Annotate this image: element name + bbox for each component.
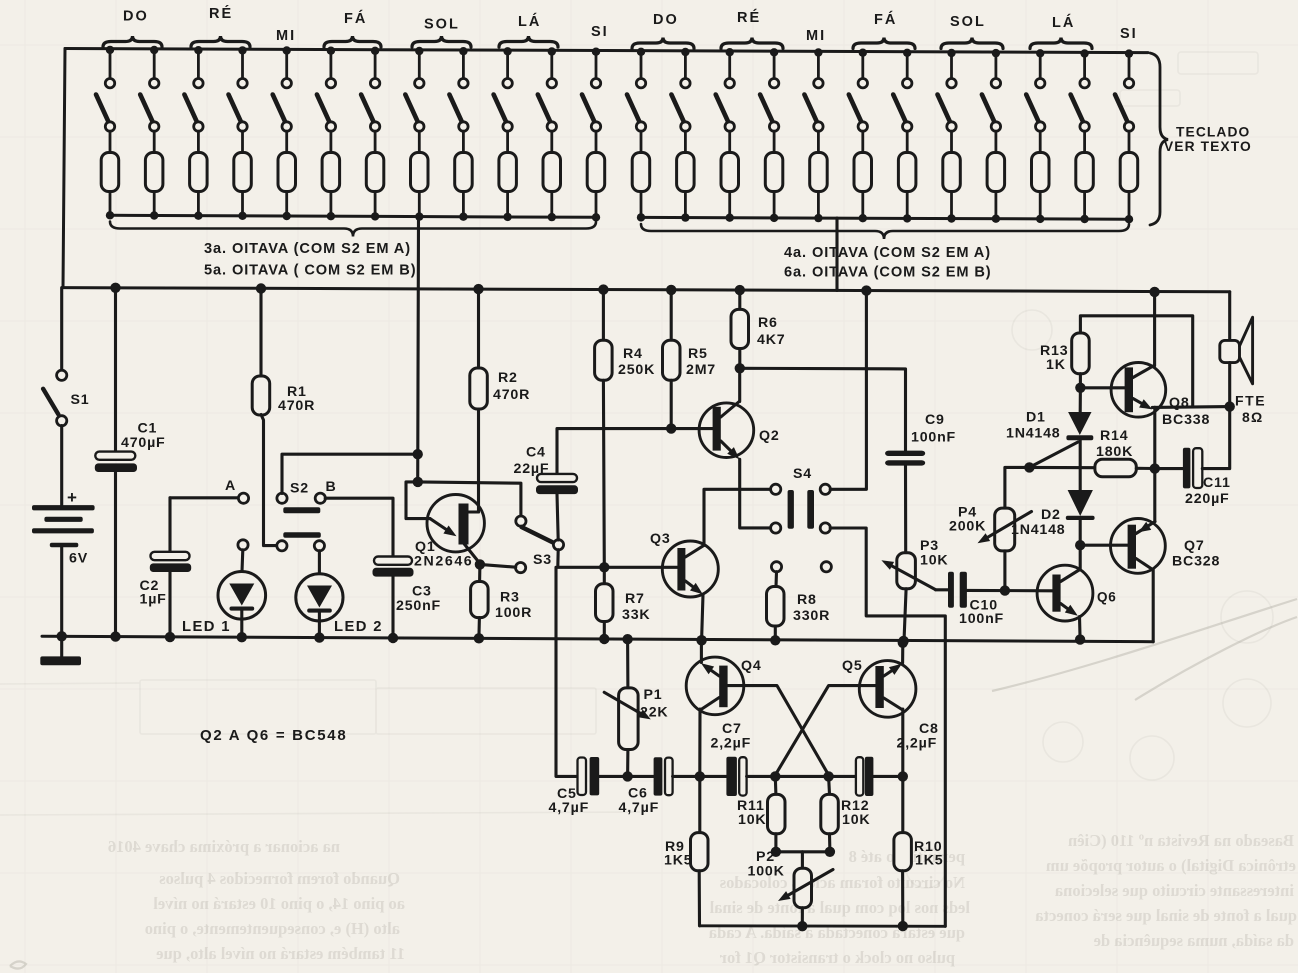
resistor R7 33K bbox=[596, 567, 651, 644]
svg-text:da saída, numa sequência de: da saída, numa sequência de bbox=[1094, 931, 1294, 950]
svg-text:2,2µF: 2,2µF bbox=[711, 736, 752, 752]
label note SOL (octave 2) bbox=[941, 14, 1003, 49]
resistor R6 4K7 bbox=[731, 285, 785, 374]
svg-text:alto (H) e, consequentemente,: alto (H) e, consequentemente, o pino bbox=[145, 919, 400, 938]
LED 2 bbox=[296, 551, 383, 643]
switch S2 bbox=[225, 478, 337, 551]
svg-text:S3: S3 bbox=[533, 552, 552, 568]
svg-text:R14: R14 bbox=[1100, 428, 1128, 444]
label note RÉ (octave 2) bbox=[721, 9, 783, 49]
capacitor C8 2,2uF bbox=[856, 721, 939, 796]
switch S4 bbox=[771, 466, 832, 572]
wire R6 to C9 bbox=[740, 368, 906, 451]
wire Q2 emitter to S4 bbox=[740, 459, 771, 528]
label note FÁ (octave 1) bbox=[324, 10, 381, 47]
wire keyboard bus octave group 1 bbox=[110, 215, 596, 217]
svg-text:B: B bbox=[326, 479, 337, 495]
svg-text:4K7: 4K7 bbox=[757, 332, 785, 348]
potentiometer P2 100K bbox=[748, 849, 834, 931]
svg-text:1K5: 1K5 bbox=[664, 853, 692, 869]
capacitor C11 220uF bbox=[1155, 407, 1231, 507]
svg-text:10K: 10K bbox=[920, 553, 948, 569]
svg-text:1N4148: 1N4148 bbox=[1011, 522, 1066, 538]
svg-text:P1: P1 bbox=[644, 687, 663, 703]
svg-text:D1: D1 bbox=[1026, 410, 1046, 426]
keyboard resistor 14 bbox=[677, 153, 695, 222]
resistor R3 100R bbox=[471, 564, 533, 643]
svg-text:470µF: 470µF bbox=[121, 435, 166, 451]
transistor Q4 bbox=[686, 635, 761, 776]
keyboard resistor 17 bbox=[810, 153, 828, 223]
svg-text:220µF: 220µF bbox=[1185, 491, 1230, 507]
transistor Q8 BC338 bbox=[1080, 287, 1210, 428]
keyboard resistor 8 bbox=[411, 153, 429, 221]
capacitor C10 100nF bbox=[936, 572, 1053, 627]
svg-text:leds nos loq com qual a fonte: leds nos loq com qual a fonte de sinal bbox=[709, 898, 970, 917]
svg-text:Q7: Q7 bbox=[1184, 538, 1205, 554]
svg-text:4,7µF: 4,7µF bbox=[619, 800, 660, 816]
speaker FTE 8R bbox=[1220, 292, 1266, 425]
svg-text:FTE: FTE bbox=[1235, 393, 1266, 409]
diode D2 1N4148 bbox=[1011, 490, 1095, 550]
svg-text:DO: DO bbox=[123, 9, 149, 25]
wire C8 to R10 bbox=[873, 771, 908, 781]
resistor R1 470R bbox=[252, 283, 315, 545]
svg-text:330R: 330R bbox=[793, 608, 830, 624]
svg-text:Quando forem fornecidos 4 puls: Quando forem fornecidos 4 pulsos bbox=[159, 869, 400, 888]
transistor Q3 bbox=[604, 531, 718, 597]
svg-text:180K: 180K bbox=[1096, 444, 1133, 460]
svg-text:TECLADO: TECLADO bbox=[1176, 125, 1250, 140]
wire Q4 base cross-couple bbox=[728, 686, 829, 775]
svg-text:S4: S4 bbox=[793, 466, 812, 482]
potentiometer P3 10K bbox=[881, 538, 948, 646]
wire S2 common to keyboard node bbox=[282, 454, 418, 493]
battery B1 6V bbox=[32, 426, 95, 642]
svg-text:1K5: 1K5 bbox=[915, 853, 943, 869]
svg-text:10K: 10K bbox=[842, 812, 870, 828]
keyboard resistor 2 bbox=[145, 153, 163, 220]
wire Q8 emitter down to Q7 bbox=[1153, 407, 1156, 521]
svg-text:Q4: Q4 bbox=[741, 658, 762, 674]
resistor R9 1K5 bbox=[664, 776, 708, 925]
wire Q5 base cross-couple bbox=[775, 686, 875, 775]
svg-text:LED 1: LED 1 bbox=[182, 619, 231, 635]
svg-text:R6: R6 bbox=[758, 315, 778, 331]
svg-text:6V: 6V bbox=[69, 551, 88, 567]
svg-text:250K: 250K bbox=[618, 362, 655, 378]
key switch 16 (RÉ) bbox=[760, 48, 779, 152]
svg-text:Q2 A Q6 = BC548: Q2 A Q6 = BC548 bbox=[200, 727, 347, 744]
keyboard resistor 22 bbox=[1032, 153, 1050, 224]
label note LÁ (octave 1) bbox=[499, 13, 558, 47]
resistor R10 1K5 bbox=[894, 776, 944, 931]
key switch 13 (DO) bbox=[627, 48, 646, 153]
svg-text:LED 2: LED 2 bbox=[334, 619, 383, 635]
svg-text:Baseado na Revista nº 110 (Ciê: Baseado na Revista nº 110 (Ciên bbox=[1068, 831, 1294, 850]
svg-text:C9: C9 bbox=[925, 412, 945, 428]
key switch 18 (FÁ) bbox=[849, 49, 868, 153]
svg-text:6a. OITAVA (COM S2 EM B): 6a. OITAVA (COM S2 EM B) bbox=[784, 265, 992, 281]
svg-text:250nF: 250nF bbox=[396, 598, 441, 614]
key switch 20 (SOL) bbox=[938, 49, 957, 153]
capacitor C2 1uF bbox=[140, 498, 239, 643]
key switch 6 (FÁ) bbox=[317, 47, 336, 153]
svg-text:pulso no clock o transistor Q1: pulso no clock o transistor Q1 for bbox=[720, 948, 955, 967]
keyboard resistor 3 bbox=[190, 153, 208, 220]
svg-text:LÁ: LÁ bbox=[518, 13, 541, 30]
svg-text:qual a fonte de sinal que será: qual a fonte de sinal que será conecta bbox=[1035, 906, 1297, 925]
svg-text:SI: SI bbox=[1120, 26, 1138, 42]
svg-text:na acionar a próxima chave 401: na acionar a próxima chave 4016 bbox=[108, 837, 340, 856]
svg-text:A: A bbox=[225, 478, 236, 494]
svg-text:DO: DO bbox=[653, 12, 679, 28]
svg-text:Q6: Q6 bbox=[1097, 590, 1117, 605]
wire S4 middle right to bottom rail bbox=[830, 528, 945, 926]
wire top +V bus bbox=[65, 49, 1148, 53]
svg-text:100K: 100K bbox=[748, 864, 785, 880]
wire multivibrator bottom rail bbox=[700, 924, 946, 927]
key switch 9 (SOL) bbox=[449, 47, 468, 153]
label note DO (octave 2) bbox=[632, 12, 694, 49]
svg-text:8Ω: 8Ω bbox=[1242, 409, 1263, 425]
resistor R12 10K bbox=[821, 776, 871, 857]
keyboard resistor 10 bbox=[499, 153, 517, 222]
key switch 7 (FÁ) bbox=[361, 47, 380, 153]
keyboard resistor 13 bbox=[632, 153, 650, 222]
keyboard resistor 23 bbox=[1076, 153, 1094, 224]
svg-text:R7: R7 bbox=[625, 591, 645, 607]
capacitor C5 4,7uF bbox=[549, 757, 600, 816]
svg-text:4a. OITAVA (COM S2 EM A): 4a. OITAVA (COM S2 EM A) bbox=[784, 245, 991, 261]
svg-text:S1: S1 bbox=[71, 392, 90, 408]
keyboard resistor 4 bbox=[234, 153, 252, 221]
key switch 15 (RÉ) bbox=[716, 48, 735, 153]
wire S2 B to C3 bbox=[325, 498, 393, 556]
svg-text:SI: SI bbox=[591, 24, 609, 40]
keyboard resistor 19 bbox=[898, 153, 916, 223]
capacitor C4 22uF bbox=[514, 429, 672, 540]
label 4a/6a OITAVA bbox=[784, 245, 992, 281]
key switch 3 (RÉ) bbox=[184, 46, 203, 153]
keyboard resistor 15 bbox=[721, 153, 739, 222]
svg-text:1K: 1K bbox=[1046, 357, 1066, 373]
wire keyboard bus octave group 2 bbox=[641, 217, 1129, 219]
transistor Q6 bbox=[1037, 545, 1117, 645]
svg-text:2,2µF: 2,2µF bbox=[897, 736, 938, 752]
wire C5 to C6 bbox=[599, 775, 653, 778]
keyboard resistor 12 bbox=[587, 153, 605, 222]
svg-text:RÉ: RÉ bbox=[209, 5, 233, 22]
resistor R13 1K bbox=[1040, 316, 1193, 406]
svg-text:4,7µF: 4,7µF bbox=[549, 800, 590, 816]
wire C4 node to C5 bbox=[556, 567, 580, 776]
key switch 17 (MI) bbox=[804, 48, 823, 152]
label note SOL (octave 1) bbox=[412, 17, 471, 48]
wire Q3 collector to S4 bbox=[704, 489, 771, 545]
svg-text:C11: C11 bbox=[1203, 475, 1231, 491]
wire ground rail bbox=[42, 636, 1153, 642]
keyboard resistor 24 bbox=[1120, 153, 1138, 224]
svg-text:5a. OITAVA ( COM S2 EM B): 5a. OITAVA ( COM S2 EM B) bbox=[204, 263, 417, 279]
key switch 8 (SOL) bbox=[405, 47, 424, 153]
wire C4/S3 to signal node bbox=[558, 550, 605, 568]
key switch 22 (LÁ) bbox=[1026, 49, 1045, 152]
svg-text:MI: MI bbox=[276, 28, 296, 44]
keyboard resistor 21 bbox=[987, 153, 1005, 223]
svg-text:11 também estará no nível alto: 11 também estará no nível alto, que bbox=[156, 944, 405, 963]
key switch 23 (LÁ) bbox=[1071, 49, 1090, 152]
wire C7 to C8 bbox=[747, 771, 856, 781]
svg-text:+: + bbox=[67, 488, 77, 507]
key switch 14 (DO) bbox=[671, 48, 690, 153]
svg-text:R3: R3 bbox=[500, 590, 520, 606]
svg-text:LÁ: LÁ bbox=[1052, 14, 1075, 31]
keyboard resistor 1 bbox=[101, 153, 119, 220]
svg-text:Q5: Q5 bbox=[842, 658, 863, 674]
wire D1 cathode to R14 node bbox=[1029, 442, 1078, 467]
node R14 left bbox=[1024, 462, 1034, 472]
key switch 12 (SI) bbox=[582, 48, 601, 153]
switch S1 bbox=[43, 288, 89, 426]
svg-text:2M7: 2M7 bbox=[686, 362, 716, 378]
diode D1 1N4148 bbox=[1006, 388, 1093, 490]
svg-text:C4: C4 bbox=[526, 445, 546, 461]
resistor R14 180K bbox=[1029, 428, 1160, 477]
svg-text:interessante circuito que sele: interessante circuito que seleciona bbox=[1055, 881, 1294, 900]
svg-text:1N4148: 1N4148 bbox=[1006, 426, 1061, 442]
svg-text:Q2: Q2 bbox=[759, 428, 780, 444]
wire Q3 emitter to ground rail bbox=[696, 594, 706, 645]
wire keyboard group 2 drop bbox=[835, 218, 838, 290]
svg-text:BC338: BC338 bbox=[1162, 412, 1210, 428]
transistor Q2 bbox=[671, 368, 779, 459]
label note MI (octave 1) bbox=[276, 28, 296, 44]
wire Q8 emitter to speaker bbox=[1152, 405, 1229, 409]
brace octave group 2 bbox=[641, 224, 1129, 239]
resistor R8 330R bbox=[767, 572, 831, 646]
potentiometer P4 200K bbox=[949, 467, 1032, 595]
svg-text:VER TEXTO: VER TEXTO bbox=[1164, 139, 1252, 154]
node FTE bbox=[1225, 401, 1235, 411]
keyboard resistor 20 bbox=[943, 153, 961, 223]
capacitor C6 4,7uF bbox=[619, 757, 673, 816]
svg-text:R2: R2 bbox=[498, 370, 518, 386]
keyboard resistor 7 bbox=[366, 153, 384, 221]
potentiometer P1 22K bbox=[604, 634, 668, 782]
ground symbol bbox=[40, 636, 81, 665]
svg-text:BC328: BC328 bbox=[1172, 554, 1220, 570]
svg-text:SOL: SOL bbox=[424, 17, 460, 33]
key switch 19 (FÁ) bbox=[893, 49, 912, 153]
resistor R2 470R bbox=[470, 284, 530, 512]
svg-text:RÉ: RÉ bbox=[737, 9, 761, 26]
switch S3 bbox=[418, 482, 564, 573]
label note LÁ (octave 2) bbox=[1030, 14, 1092, 49]
label 3a/5a OITAVA bbox=[204, 241, 417, 279]
svg-text:22K: 22K bbox=[640, 705, 668, 721]
node keyboard group 1 drop bbox=[413, 217, 423, 487]
svg-text:2N2646: 2N2646 bbox=[414, 554, 473, 570]
svg-text:200K: 200K bbox=[949, 519, 986, 535]
keyboard resistor 18 bbox=[854, 153, 872, 223]
svg-text:10K: 10K bbox=[738, 812, 766, 828]
wire C6 to C7 bbox=[673, 771, 727, 781]
transistor Q1 2N2646 bbox=[406, 482, 484, 570]
(decorative bleed-through, not labelled) bbox=[108, 831, 1297, 967]
svg-text:R5: R5 bbox=[688, 346, 708, 362]
svg-text:100nF: 100nF bbox=[911, 430, 956, 446]
svg-text:1µF: 1µF bbox=[140, 592, 167, 608]
wire S4 upper right to +V bbox=[830, 285, 871, 489]
keyboard resistor 9 bbox=[455, 153, 473, 221]
label TECLADO VER TEXTO bbox=[1164, 125, 1252, 155]
key switch 2 (DO) bbox=[140, 46, 159, 153]
svg-text:22µF: 22µF bbox=[514, 461, 550, 477]
brace octave group 1 bbox=[110, 222, 596, 237]
resistor R4 250K bbox=[595, 284, 656, 572]
svg-text:Q3: Q3 bbox=[650, 531, 671, 547]
key switch 21 (SOL) bbox=[982, 49, 1001, 153]
label note DO (octave 1) bbox=[103, 9, 162, 48]
svg-text:ao pino 14, o pino 10 estará n: ao pino 14, o pino 10 estará no nível bbox=[153, 894, 405, 913]
wire +V rail bbox=[62, 288, 1230, 292]
label note SI (octave 1) bbox=[591, 24, 609, 40]
node Q1 B1 / R3 bbox=[475, 559, 485, 569]
resistor R11 10K bbox=[737, 776, 785, 857]
key switch 11 (LÁ) bbox=[538, 47, 557, 152]
label note RÉ (octave 1) bbox=[191, 5, 250, 47]
wire left bus drop bbox=[63, 49, 65, 288]
LED 1 bbox=[182, 550, 266, 643]
keyboard resistor 6 bbox=[322, 153, 340, 221]
key switch 24 (SI) bbox=[1115, 49, 1134, 152]
svg-text:R8: R8 bbox=[797, 592, 817, 608]
svg-text:470R: 470R bbox=[493, 387, 530, 403]
svg-text:100R: 100R bbox=[495, 605, 532, 621]
svg-text:100nF: 100nF bbox=[959, 611, 1004, 627]
key switch 5 (MI) bbox=[273, 46, 292, 152]
svg-text:FÁ: FÁ bbox=[874, 11, 897, 28]
transistor Q5 bbox=[842, 638, 916, 777]
svg-text:33K: 33K bbox=[622, 607, 650, 623]
svg-text:MI: MI bbox=[806, 28, 826, 44]
resistor R5 2M7 bbox=[663, 285, 717, 434]
svg-text:etrônica Digital) o autor prop: etrônica Digital) o autor propõe um bbox=[1046, 856, 1296, 875]
key switch 1 (DO) bbox=[96, 46, 115, 153]
key switch 4 (RÉ) bbox=[229, 46, 248, 152]
capacitor C9 100nF bbox=[885, 412, 956, 553]
label note MI (octave 2) bbox=[806, 28, 826, 44]
brace TECLADO bbox=[1150, 53, 1168, 225]
svg-text:SOL: SOL bbox=[950, 14, 986, 30]
key switch 10 (LÁ) bbox=[494, 47, 513, 152]
svg-text:S2: S2 bbox=[290, 481, 309, 497]
svg-text:FÁ: FÁ bbox=[344, 10, 367, 27]
capacitor C1 470uF bbox=[95, 283, 166, 642]
svg-text:470R: 470R bbox=[278, 398, 315, 414]
keyboard resistor 11 bbox=[543, 153, 561, 222]
svg-text:D2: D2 bbox=[1041, 507, 1061, 523]
keyboard resistor 16 bbox=[765, 153, 783, 223]
svg-text:3a. OITAVA (COM S2 EM A): 3a. OITAVA (COM S2 EM A) bbox=[204, 241, 411, 257]
transistor Q7 BC328 bbox=[1080, 519, 1220, 642]
label note FÁ (octave 2) bbox=[853, 11, 915, 49]
label note SI (octave 2) bbox=[1120, 26, 1138, 42]
keyboard resistor 5 bbox=[278, 153, 296, 221]
capacitor C3 250nF bbox=[373, 557, 442, 644]
capacitor C7 2,2uF bbox=[711, 721, 752, 796]
svg-text:R4: R4 bbox=[623, 346, 643, 362]
